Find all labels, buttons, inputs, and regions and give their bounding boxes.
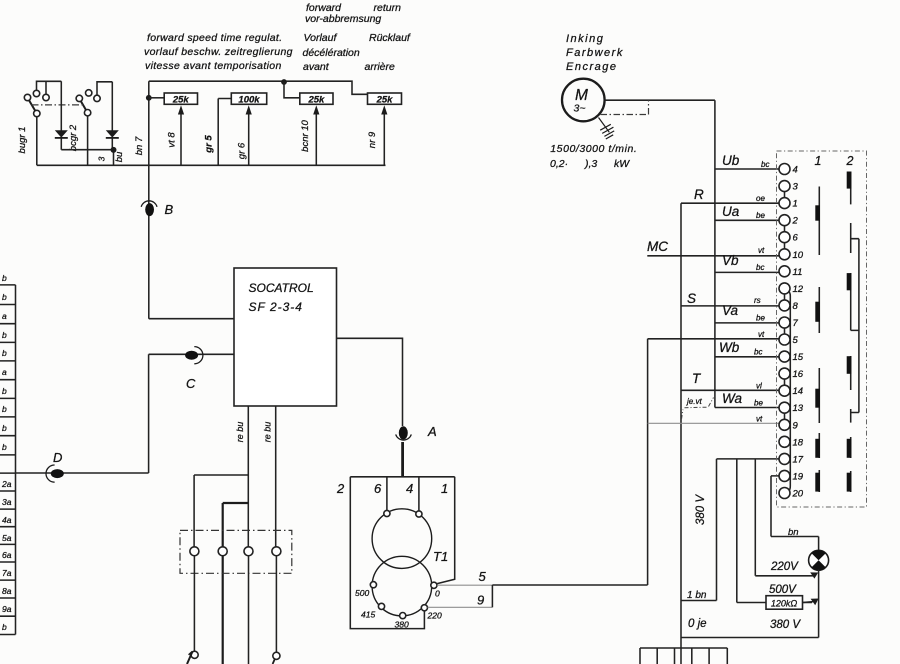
svg-text:220: 220 bbox=[427, 611, 442, 621]
connector 2 pin 7 bbox=[847, 471, 852, 492]
bus U phase bbox=[714, 100, 716, 407]
wire T bbox=[681, 389, 779, 391]
terminal 1 bbox=[779, 198, 798, 210]
svg-text:8: 8 bbox=[793, 301, 799, 312]
svg-text:vl: vl bbox=[756, 382, 762, 391]
svg-text:a: a bbox=[2, 311, 7, 321]
svg-text:5: 5 bbox=[793, 335, 799, 346]
bridge 12-8 bbox=[784, 294, 786, 300]
wire A to transformer thick bbox=[401, 442, 404, 477]
svg-text:2: 2 bbox=[792, 216, 799, 227]
terminal 0 pin bbox=[431, 582, 437, 588]
resistor pot 100k (2) bbox=[218, 93, 267, 165]
svg-text:b: b bbox=[2, 330, 7, 340]
connector pin P3 bbox=[244, 547, 253, 556]
svg-text:T1: T1 bbox=[433, 549, 448, 564]
svg-text:11: 11 bbox=[793, 267, 803, 278]
lamp EL1 bbox=[809, 550, 829, 570]
svg-text:re bu: re bu bbox=[263, 422, 273, 443]
svg-text:b: b bbox=[2, 386, 7, 396]
wire 5 faint bbox=[437, 584, 492, 586]
wire terminal 17 branch bbox=[717, 459, 780, 603]
svg-text:a: a bbox=[2, 367, 7, 377]
terminal 16 bbox=[779, 368, 804, 380]
terminal 11 bbox=[779, 266, 802, 278]
svg-text:15: 15 bbox=[793, 352, 804, 363]
wire motor to bus bbox=[605, 99, 715, 101]
connector node C bbox=[185, 347, 203, 364]
svg-text:7a: 7a bbox=[2, 568, 12, 578]
node dot bu 3 bbox=[111, 147, 117, 153]
svg-text:SF 2-3-4: SF 2-3-4 bbox=[249, 300, 303, 314]
bridge 7-5 bbox=[784, 328, 786, 334]
switch bcgr 2 bbox=[76, 82, 112, 166]
node dot pot1 bbox=[146, 95, 152, 101]
svg-text:Vorlauf: Vorlauf bbox=[304, 32, 338, 44]
connector 1 pin 4 bbox=[815, 433, 820, 458]
svg-text:12: 12 bbox=[793, 284, 804, 295]
connector pin P2 bbox=[218, 547, 227, 556]
connector 1 pin 1 bbox=[815, 187, 820, 256]
svg-text:bugr 1: bugr 1 bbox=[17, 127, 28, 154]
bridge 2-6 bbox=[784, 226, 786, 232]
ground chassis bbox=[599, 118, 615, 140]
terminal 4 pin bbox=[416, 511, 422, 517]
connector pin P1 bbox=[190, 547, 199, 556]
switch contact bottom 1 bbox=[187, 651, 198, 664]
wire Va bbox=[715, 322, 779, 324]
svg-text:0: 0 bbox=[435, 589, 440, 599]
svg-text:Ua: Ua bbox=[722, 204, 740, 219]
svg-text:3~: 3~ bbox=[574, 103, 586, 115]
svg-text:100k: 100k bbox=[238, 94, 260, 105]
svg-text:380 V: 380 V bbox=[770, 619, 801, 631]
svg-text:S: S bbox=[687, 291, 696, 306]
svg-text:arrière: arrière bbox=[365, 61, 396, 73]
bus R phase bbox=[680, 203, 682, 664]
wire Wa bbox=[715, 407, 779, 409]
terminal 13 bbox=[779, 402, 804, 414]
resistor pot 25k (4) bbox=[368, 93, 402, 105]
wire terminal 19 to lamp bbox=[771, 476, 819, 551]
svg-text:6: 6 bbox=[374, 481, 382, 496]
bridge 16-14 bbox=[784, 379, 786, 385]
svg-text:bcgr 2: bcgr 2 bbox=[68, 124, 79, 151]
svg-text:380 V: 380 V bbox=[695, 494, 707, 525]
terminal 15 bbox=[779, 351, 804, 363]
svg-text:vt 8: vt 8 bbox=[167, 132, 178, 148]
svg-text:b: b bbox=[2, 292, 7, 302]
terminal block bottom bbox=[640, 648, 727, 664]
svg-text:vorlauf beschw. zeitreglierung: vorlauf beschw. zeitreglierung bbox=[144, 46, 293, 58]
svg-text:25k: 25k bbox=[376, 94, 394, 105]
svg-text:re bu: re bu bbox=[235, 422, 245, 443]
svg-text:17: 17 bbox=[793, 454, 804, 465]
svg-text:2a: 2a bbox=[1, 479, 12, 489]
svg-text:18: 18 bbox=[793, 437, 804, 448]
wire re bu 2 bbox=[275, 406, 277, 547]
svg-text:SOCATROL: SOCATROL bbox=[249, 281, 314, 295]
svg-text:4a: 4a bbox=[2, 515, 12, 525]
svg-text:bu: bu bbox=[114, 151, 125, 162]
svg-text:5: 5 bbox=[479, 569, 487, 584]
wire thick P2 riser bbox=[223, 503, 249, 664]
terminal 14 bbox=[779, 385, 803, 397]
wire 12 to 20 bbox=[789, 292, 791, 491]
connector node B bbox=[141, 201, 157, 216]
svg-text:Encrage: Encrage bbox=[566, 61, 617, 73]
terminal 5 bbox=[779, 334, 799, 346]
svg-text:bn: bn bbox=[788, 527, 799, 538]
terminal 220 pin bbox=[421, 605, 427, 611]
svg-text:500: 500 bbox=[355, 588, 369, 598]
svg-text:gr 6: gr 6 bbox=[237, 142, 248, 159]
bridge 6-10 bbox=[784, 243, 786, 249]
terminal strip X1 bbox=[0, 285, 16, 635]
wiper arrow bcnr 10 bbox=[313, 105, 319, 165]
transformer T1 secondary bbox=[372, 556, 432, 616]
resistor 120k bbox=[737, 596, 819, 610]
svg-text:1: 1 bbox=[793, 199, 798, 210]
svg-text:20: 20 bbox=[792, 489, 804, 500]
connector node A bbox=[396, 426, 412, 440]
svg-text:3: 3 bbox=[793, 182, 799, 193]
svg-text:25k: 25k bbox=[307, 94, 325, 105]
connector 1 pin 5 bbox=[815, 470, 820, 492]
wire S bbox=[681, 305, 779, 307]
terminal 9 bbox=[779, 419, 799, 431]
wire Ub bbox=[715, 168, 779, 170]
svg-text:vitesse avant temporisation: vitesse avant temporisation bbox=[145, 60, 282, 72]
terminal 19 bbox=[779, 470, 804, 482]
svg-text:4: 4 bbox=[406, 481, 413, 496]
wire 5 to riser bbox=[492, 339, 647, 585]
terminal 3 bbox=[779, 181, 799, 193]
svg-text:6a: 6a bbox=[2, 550, 12, 560]
wire 0 je bbox=[681, 637, 819, 639]
svg-text:),3: ),3 bbox=[583, 158, 597, 170]
wire 9 step bbox=[491, 585, 493, 607]
transformer T1 outline bbox=[350, 477, 454, 629]
svg-text:b: b bbox=[2, 442, 7, 452]
terminal 10 bbox=[779, 249, 804, 261]
resistor pot 25k (1) bbox=[164, 93, 197, 105]
svg-text:120kΩ: 120kΩ bbox=[771, 599, 798, 609]
svg-text:1500/3000 t/min.: 1500/3000 t/min. bbox=[550, 143, 637, 155]
connector 1 pin 2 bbox=[815, 287, 820, 333]
svg-text:Farbwerk: Farbwerk bbox=[566, 47, 624, 59]
connector plug dashed box bbox=[180, 530, 292, 573]
svg-text:9: 9 bbox=[477, 593, 484, 608]
svg-text:décélération: décélération bbox=[303, 47, 360, 59]
connector pin P4 bbox=[272, 547, 281, 556]
svg-text:forward speed time regulat.: forward speed time regulat. bbox=[147, 32, 282, 44]
motor M 3~ bbox=[562, 79, 605, 122]
mechanical link dash-dot bbox=[601, 100, 649, 114]
connector 2 bracket bbox=[851, 239, 859, 413]
terminal 500 pin bbox=[370, 582, 376, 588]
terminal 18 bbox=[779, 436, 804, 448]
svg-text:2: 2 bbox=[336, 481, 345, 496]
terminal 4 bbox=[779, 164, 798, 176]
svg-text:Rücklauf: Rücklauf bbox=[369, 32, 411, 44]
svg-text:bc: bc bbox=[761, 160, 769, 169]
wire Ua bbox=[715, 219, 779, 221]
connector 2 pin 1 bbox=[847, 172, 852, 205]
bottom rail wire bbox=[37, 164, 386, 166]
terminal 2 bbox=[779, 215, 799, 227]
wiper arrow gr 6 bbox=[246, 105, 252, 165]
connector 1 pin 3 bbox=[815, 368, 820, 423]
wire diode junction bbox=[61, 150, 113, 166]
svg-text:M: M bbox=[575, 87, 588, 104]
wire D riser bbox=[148, 354, 150, 473]
connector 2 pin 3 bbox=[847, 273, 852, 330]
svg-text:13: 13 bbox=[793, 403, 804, 414]
connector node D bbox=[46, 465, 64, 482]
svg-text:Inking: Inking bbox=[566, 33, 604, 45]
wire MC bbox=[647, 255, 779, 257]
svg-text:b: b bbox=[2, 348, 7, 358]
wire lamp down bbox=[818, 570, 820, 638]
wire to pot3 bbox=[284, 82, 300, 98]
bridge 3-1 bbox=[784, 192, 786, 198]
svg-text:4: 4 bbox=[793, 165, 798, 176]
svg-text:bc: bc bbox=[756, 263, 764, 272]
svg-text:vt: vt bbox=[756, 415, 763, 424]
terminal 415 pin bbox=[378, 603, 384, 609]
diode D2 bbox=[106, 82, 119, 150]
terminal 6 bbox=[779, 232, 799, 244]
wire P3 down bbox=[248, 556, 250, 664]
svg-text:9a: 9a bbox=[2, 604, 12, 614]
svg-text:je.vt: je.vt bbox=[686, 397, 702, 406]
wire re bu 1 bbox=[194, 406, 248, 547]
wire Wb bbox=[715, 356, 779, 358]
transformer T1 primary bbox=[372, 509, 432, 569]
wire vt 5 bbox=[648, 338, 779, 340]
svg-text:be: be bbox=[756, 211, 765, 220]
svg-text:0,2·: 0,2· bbox=[550, 158, 568, 170]
wire to pot1 bbox=[149, 97, 164, 99]
svg-text:1 bn: 1 bn bbox=[687, 590, 707, 601]
svg-text:MC: MC bbox=[647, 239, 668, 254]
label Inking Farbwerk Encrage bbox=[566, 33, 624, 73]
svg-text:Vb: Vb bbox=[722, 253, 739, 268]
svg-text:bc: bc bbox=[754, 348, 762, 357]
svg-text:R: R bbox=[694, 187, 704, 202]
svg-text:220V: 220V bbox=[770, 561, 799, 573]
svg-text:Wb: Wb bbox=[719, 340, 740, 355]
svg-text:b: b bbox=[2, 273, 7, 283]
mechanical coupling dash-dot bbox=[32, 104, 86, 106]
svg-text:5a: 5a bbox=[2, 533, 12, 543]
wire Vb bbox=[715, 271, 779, 273]
wire bn7 riser bbox=[148, 81, 150, 319]
svg-text:gr 5: gr 5 bbox=[204, 135, 215, 154]
svg-text:B: B bbox=[165, 202, 174, 217]
svg-text:380: 380 bbox=[395, 620, 409, 630]
svg-text:8a: 8a bbox=[2, 586, 12, 596]
resistor pot 25k (3) bbox=[300, 93, 333, 105]
wire R bbox=[681, 202, 779, 204]
terminal 6 pin bbox=[384, 510, 390, 516]
svg-text:0 je: 0 je bbox=[688, 618, 707, 630]
svg-text:b: b bbox=[2, 622, 7, 632]
terminal 12 bbox=[779, 283, 804, 295]
wire 1 bn bbox=[681, 600, 717, 602]
connector 2 pin 5 bbox=[850, 409, 852, 423]
wire bn7 to socatrol bbox=[149, 318, 234, 320]
svg-text:9: 9 bbox=[793, 420, 799, 431]
wire C to socatrol bbox=[149, 353, 234, 355]
svg-text:be: be bbox=[756, 314, 765, 323]
wire vt 9 bbox=[648, 422, 779, 424]
svg-text:Ub: Ub bbox=[722, 153, 740, 168]
svg-text:7: 7 bbox=[793, 318, 799, 329]
svg-text:14: 14 bbox=[793, 386, 804, 397]
terminal 20 bbox=[779, 488, 804, 500]
svg-text:16: 16 bbox=[793, 369, 804, 380]
svg-text:be: be bbox=[754, 399, 763, 408]
svg-text:10: 10 bbox=[793, 250, 804, 261]
connector 2 pin 4 bbox=[847, 356, 852, 390]
svg-text:b: b bbox=[2, 423, 7, 433]
connector boundary dashed box bbox=[777, 151, 867, 507]
svg-text:D: D bbox=[53, 450, 62, 465]
svg-text:A: A bbox=[427, 424, 437, 439]
wire socatrol to A bbox=[337, 338, 403, 426]
svg-text:oe: oe bbox=[756, 194, 765, 203]
wire P1 down bbox=[193, 556, 195, 651]
svg-text:3: 3 bbox=[97, 156, 107, 161]
terminal strip labels bbox=[1, 273, 12, 632]
wire primary 6 bbox=[386, 477, 388, 511]
svg-text:vor-abbremsung: vor-abbremsung bbox=[305, 13, 381, 25]
svg-text:kW: kW bbox=[614, 158, 630, 170]
svg-text:rs: rs bbox=[754, 296, 761, 305]
svg-text:6: 6 bbox=[793, 233, 799, 244]
connector 2 pin 6 bbox=[847, 437, 852, 458]
controller U1 SOCATROL bbox=[234, 268, 337, 406]
connector 2 pin 2 bbox=[850, 223, 852, 253]
svg-text:b: b bbox=[2, 404, 7, 414]
terminal 8 bbox=[779, 300, 799, 312]
svg-text:500V: 500V bbox=[769, 584, 797, 596]
terminal 17 bbox=[779, 453, 804, 465]
wire top rail bbox=[149, 81, 368, 94]
wire P4 down bbox=[275, 556, 277, 652]
svg-text:bcnr 10: bcnr 10 bbox=[300, 119, 311, 151]
svg-text:avant: avant bbox=[303, 61, 330, 73]
svg-text:Va: Va bbox=[722, 303, 739, 318]
svg-text:2: 2 bbox=[846, 154, 854, 168]
switch bugr 1 bbox=[24, 81, 61, 165]
svg-text:bn 7: bn 7 bbox=[134, 136, 145, 155]
svg-text:vt: vt bbox=[758, 246, 765, 255]
svg-text:nr 9: nr 9 bbox=[367, 131, 378, 148]
svg-text:3a: 3a bbox=[2, 497, 12, 507]
svg-text:25k: 25k bbox=[172, 94, 190, 105]
svg-text:1: 1 bbox=[441, 481, 448, 496]
wire 9 faint bbox=[428, 606, 493, 608]
svg-text:Wa: Wa bbox=[722, 391, 742, 406]
wire D horizontal bbox=[16, 472, 149, 474]
node dot top rail bbox=[281, 79, 287, 85]
wire 220V to lamp bbox=[755, 575, 813, 577]
svg-text:19: 19 bbox=[793, 471, 804, 482]
SECTION: header texts bbox=[144, 2, 411, 73]
svg-text:415: 415 bbox=[361, 610, 375, 620]
terminal 7 bbox=[779, 317, 799, 329]
wiper arrow vt 8 bbox=[178, 105, 184, 165]
callout je-vt bbox=[682, 397, 714, 419]
terminal 380 pin bbox=[400, 613, 406, 619]
wire primary 4 bbox=[418, 477, 420, 511]
svg-text:C: C bbox=[186, 376, 196, 391]
diode D1 bbox=[55, 81, 68, 149]
svg-text:vt: vt bbox=[758, 330, 765, 339]
wiper arrow nr 9 bbox=[381, 105, 387, 165]
svg-text:1: 1 bbox=[815, 154, 822, 168]
bridge 13-9 bbox=[784, 413, 786, 419]
switch contact bottom 2 bbox=[273, 652, 280, 664]
